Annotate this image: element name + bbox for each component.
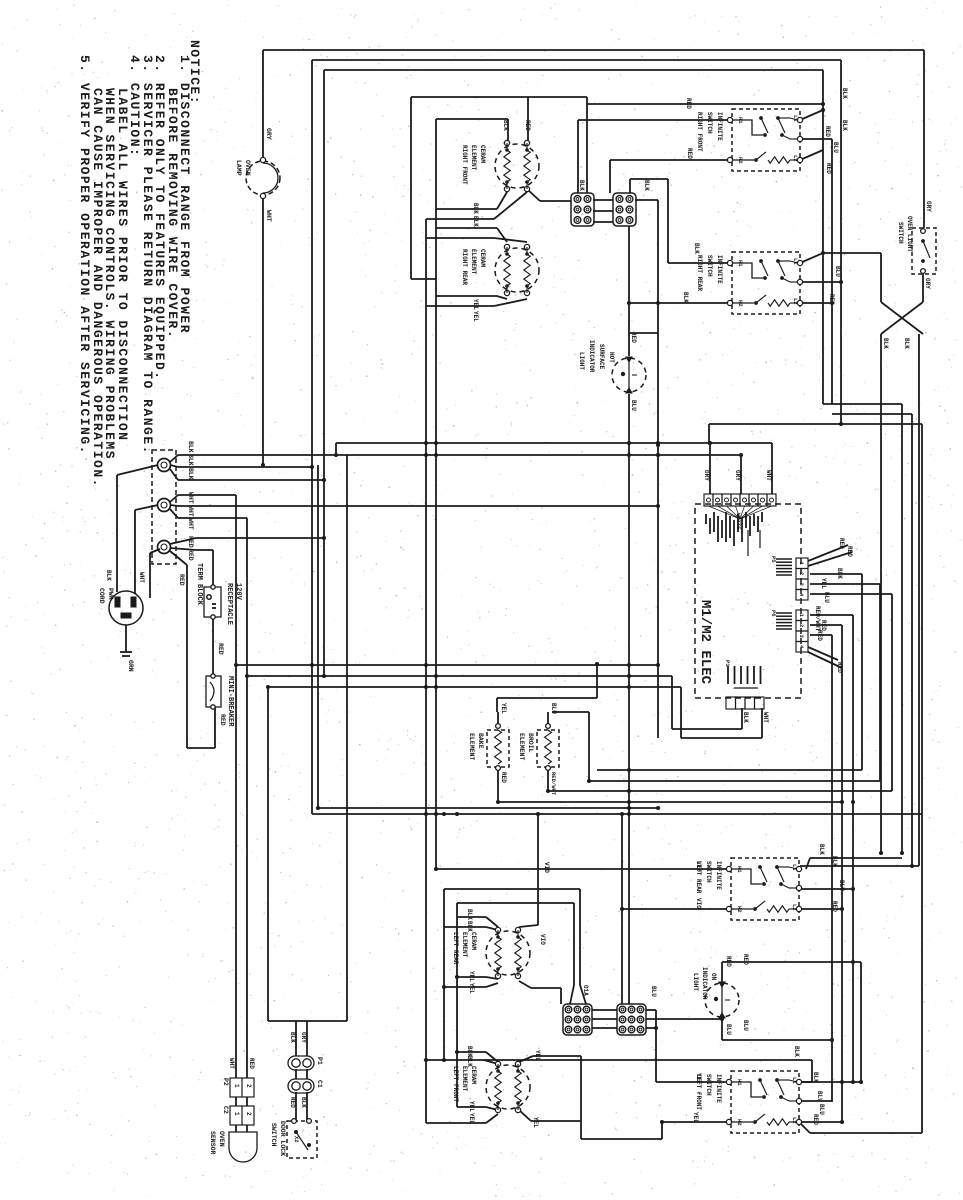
svg-text:GRN: GRN <box>127 660 134 672</box>
svg-text:YEL: YEL <box>820 578 827 589</box>
svg-text:BLU: BLU <box>838 880 845 891</box>
svg-text:OVEN: OVEN <box>244 160 251 176</box>
svg-text:BLK: BLK <box>903 338 910 349</box>
svg-text:HOT: HOT <box>608 352 615 363</box>
svg-text:H1: H1 <box>737 260 744 267</box>
svg-text:2: 2 <box>798 572 805 575</box>
svg-text:P1: P1 <box>724 660 731 667</box>
svg-text:L1: L1 <box>792 115 799 122</box>
svg-text:RED: RED <box>838 538 845 549</box>
svg-text:RED/WHT: RED/WHT <box>550 772 557 796</box>
svg-text:YEL: YEL <box>695 1073 702 1084</box>
svg-text:BLK: BLK <box>841 88 848 99</box>
svg-text:BLK: BLK <box>187 454 194 466</box>
svg-text:LEFT FRONT: LEFT FRONT <box>452 1066 459 1102</box>
svg-text:RIGHT REAR: RIGHT REAR <box>461 249 468 285</box>
svg-text:RED: RED <box>812 1114 819 1125</box>
svg-text:RED: RED <box>824 126 831 137</box>
svg-text:GRY: GRY <box>925 201 932 212</box>
svg-text:CORD: CORD <box>98 588 105 604</box>
svg-text:2: 2 <box>798 624 805 627</box>
svg-text:BLU: BLU <box>823 592 830 603</box>
svg-text:BLK: BLK <box>105 570 112 581</box>
svg-text:L1: L1 <box>791 1077 798 1084</box>
svg-text:P2: P2 <box>222 1078 229 1086</box>
svg-text:BLK: BLK <box>502 120 509 131</box>
svg-text:BLK: BLK <box>836 568 843 579</box>
svg-text:ELEMENT: ELEMENT <box>468 733 475 760</box>
svg-text:BLU: BLU <box>834 266 841 277</box>
svg-text:VIO: VIO <box>543 862 550 873</box>
svg-text:GRY: GRY <box>265 128 272 140</box>
svg-text:RED/WHT: RED/WHT <box>814 606 821 632</box>
svg-text:WHT: WHT <box>187 492 194 504</box>
svg-text:RED: RED <box>836 662 843 673</box>
svg-text:BLK: BLK <box>841 120 848 131</box>
svg-text:SWITCH: SWITCH <box>270 1123 277 1147</box>
svg-text:CERAM: CERAM <box>479 145 486 163</box>
svg-text:BROIL: BROIL <box>527 733 534 753</box>
svg-text:INFINITE: INFINITE <box>716 112 723 141</box>
svg-text:SWITCH: SWITCH <box>706 112 713 134</box>
svg-text:BLK: BLK <box>818 844 825 855</box>
svg-text:RED: RED <box>825 163 832 174</box>
svg-text:L2: L2 <box>791 1117 798 1124</box>
svg-text:RED: RED <box>219 714 226 726</box>
svg-text:BLK: BLK <box>643 180 650 191</box>
svg-text:INDICATOR: INDICATOR <box>588 340 595 373</box>
svg-text:120V: 120V <box>234 583 242 601</box>
svg-text:VIO: VIO <box>695 898 702 909</box>
svg-text:BLK: BLK <box>882 338 889 349</box>
svg-text:YEL: YEL <box>534 1050 541 1061</box>
svg-text:BLK: BLK <box>578 180 585 191</box>
svg-text:SENSOR: SENSOR <box>209 1131 216 1155</box>
svg-text:RED: RED <box>725 956 732 967</box>
svg-text:RED: RED <box>248 1058 255 1069</box>
svg-text:H1: H1 <box>737 117 744 124</box>
svg-text:WHT: WHT <box>228 1058 235 1069</box>
svg-text:INDICATOR: INDICATOR <box>701 967 708 1000</box>
svg-text:BLU: BLU <box>742 1020 749 1031</box>
svg-text:RED: RED <box>686 148 693 159</box>
svg-text:SWITCH: SWITCH <box>897 222 904 244</box>
svg-text:M1/M2 ELEC: M1/M2 ELEC <box>697 600 713 685</box>
svg-text:1: 1 <box>233 1084 240 1088</box>
svg-text:X2: X2 <box>293 1136 300 1143</box>
svg-text:BLK: BLK <box>466 1056 473 1067</box>
svg-text:3: 3 <box>798 583 805 587</box>
svg-text:RED: RED <box>217 643 224 655</box>
svg-text:RED: RED <box>816 630 823 641</box>
svg-text:ELEMENT: ELEMENT <box>470 145 477 171</box>
svg-text:BLU: BLU <box>650 986 657 997</box>
svg-text:RED: RED <box>742 954 749 965</box>
svg-text:BLK: BLK <box>472 216 479 227</box>
svg-text:GRY: GRY <box>924 278 931 289</box>
svg-text:RIGHT FRONT: RIGHT FRONT <box>461 145 468 185</box>
svg-text:P1: P1 <box>316 1057 323 1065</box>
svg-text:L1: L1 <box>791 864 798 871</box>
svg-text:BLU: BLU <box>630 400 637 411</box>
svg-text:L2: L2 <box>792 155 799 162</box>
svg-text:H2: H2 <box>736 906 743 913</box>
svg-text:BLK: BLK <box>187 468 194 480</box>
svg-text:4: 4 <box>798 593 805 597</box>
svg-text:RED: RED <box>524 120 531 131</box>
svg-text:RED: RED <box>831 901 838 912</box>
svg-text:DOOR LOCK: DOOR LOCK <box>279 1121 286 1156</box>
svg-text:YEL: YEL <box>472 311 479 322</box>
svg-text:BLK: BLK <box>300 1097 307 1108</box>
svg-text:VIO: VIO <box>695 861 702 872</box>
svg-text:RED: RED <box>187 549 194 561</box>
svg-text:BLK: BLK <box>693 243 700 254</box>
svg-text:LIGHT: LIGHT <box>692 973 699 991</box>
svg-text:RED: RED <box>846 546 853 557</box>
svg-text:WHT: WHT <box>762 712 769 723</box>
svg-text:GRY: GRY <box>300 1032 307 1043</box>
svg-text:GRY: GRY <box>734 470 741 481</box>
svg-text:SURFACE: SURFACE <box>598 344 605 370</box>
svg-text:BLK: BLK <box>466 909 473 920</box>
svg-text:C2: C2 <box>222 1106 229 1114</box>
svg-text:L2: L2 <box>792 298 799 305</box>
svg-text:H1: H1 <box>736 866 743 873</box>
svg-text:C1: C1 <box>316 1080 323 1088</box>
svg-text:MINI-BREAKER: MINI-BREAKER <box>226 676 234 727</box>
svg-text:INFINITE: INFINITE <box>716 255 723 284</box>
svg-text:ELEMENT: ELEMENT <box>470 249 477 275</box>
svg-text:ELEMENT: ELEMENT <box>518 733 525 760</box>
svg-text:BLK: BLK <box>466 921 473 932</box>
svg-text:P5: P5 <box>770 556 777 563</box>
svg-text:YEL: YEL <box>468 983 475 994</box>
svg-text:H2: H2 <box>737 300 744 307</box>
svg-text:BLU: BLU <box>550 703 557 714</box>
svg-text:ON: ON <box>710 973 717 981</box>
svg-text:RED: RED <box>500 772 507 783</box>
svg-text:RED: RED <box>685 98 692 109</box>
svg-text:CERAM: CERAM <box>470 932 477 950</box>
svg-text:YEL: YEL <box>468 1113 475 1124</box>
svg-text:SWITCH: SWITCH <box>705 861 712 883</box>
svg-text:CERAM: CERAM <box>470 1066 477 1084</box>
svg-text:BLK: BLK <box>831 856 838 867</box>
svg-text:P6: P6 <box>770 610 777 617</box>
svg-text:PWR: PWR <box>107 588 114 600</box>
svg-text:BLK: BLK <box>682 292 689 303</box>
svg-text:BLU: BLU <box>832 142 839 153</box>
svg-text:YEL: YEL <box>468 971 475 982</box>
svg-text:WHT: WHT <box>187 505 194 517</box>
svg-text:LIGHT: LIGHT <box>578 352 585 370</box>
svg-text:H2: H2 <box>736 1119 743 1126</box>
svg-text:1: 1 <box>798 614 805 618</box>
svg-text:CERAM: CERAM <box>479 249 486 267</box>
svg-text:BLK: BLK <box>289 1032 296 1043</box>
svg-text:1: 1 <box>798 562 805 566</box>
svg-text:INFINITE: INFINITE <box>715 861 722 890</box>
svg-text:BLK: BLK <box>812 1072 819 1083</box>
svg-text:3: 3 <box>798 635 805 639</box>
svg-text:YEL: YEL <box>472 299 479 310</box>
svg-text:TERM BLOCK: TERM BLOCK <box>195 563 203 606</box>
svg-text:OVEN: OVEN <box>218 1131 225 1147</box>
svg-text:ELEMENT: ELEMENT <box>461 1066 468 1092</box>
svg-text:O1A: O1A <box>582 985 589 996</box>
svg-text:L2: L2 <box>791 904 798 911</box>
svg-text:SWITCH: SWITCH <box>706 255 713 277</box>
svg-text:H2: H2 <box>737 157 744 164</box>
svg-text:RIGHT FRONT: RIGHT FRONT <box>696 112 703 152</box>
svg-text:2: 2 <box>245 1084 252 1088</box>
svg-text:SWITCH: SWITCH <box>705 1074 712 1096</box>
svg-text:BAKE: BAKE <box>477 733 484 749</box>
svg-text:ELEMENT: ELEMENT <box>461 932 468 958</box>
svg-text:YEL: YEL <box>692 1112 699 1123</box>
svg-text:BLK: BLK <box>742 712 749 723</box>
svg-text:1: 1 <box>233 1112 240 1116</box>
svg-text:VIO: VIO <box>539 934 546 945</box>
svg-text:WHT: WHT <box>765 470 772 481</box>
svg-text:WHT: WHT <box>138 572 145 583</box>
svg-text:YEL: YEL <box>500 703 507 714</box>
svg-text:RIGHT REAR: RIGHT REAR <box>696 255 703 291</box>
svg-text:RED: RED <box>187 536 194 548</box>
svg-text:WHT: WHT <box>265 210 272 222</box>
svg-text:LAMP: LAMP <box>235 160 242 176</box>
svg-text:YEL: YEL <box>468 1101 475 1112</box>
svg-text:BLK: BLK <box>793 1046 800 1057</box>
svg-text:RECEPTACLE: RECEPTACLE <box>225 583 233 625</box>
svg-text:BLK: BLK <box>187 441 194 453</box>
svg-text:H1: H1 <box>736 1079 743 1086</box>
svg-text:RED: RED <box>289 1097 296 1108</box>
svg-text:L1: L1 <box>792 258 799 265</box>
svg-text:RED: RED <box>630 332 637 343</box>
svg-text:BLU: BLU <box>816 1091 823 1102</box>
svg-text:WHT: WHT <box>187 518 194 530</box>
svg-text:RED: RED <box>828 294 835 305</box>
svg-text:YEL: YEL <box>532 1117 539 1128</box>
svg-text:LEFT REAR: LEFT REAR <box>452 932 459 965</box>
svg-text:GRY: GRY <box>703 470 710 481</box>
svg-text:OVEN LIGHT: OVEN LIGHT <box>906 216 913 252</box>
svg-text:INFINITE: INFINITE <box>715 1074 722 1103</box>
svg-text:BLK: BLK <box>472 203 479 214</box>
svg-text:5. VERIFY PROPER OPERATION AFT: 5. VERIFY PROPER OPERATION AFTER SERVICI… <box>77 55 92 455</box>
svg-text:BLU: BLU <box>725 1024 732 1035</box>
svg-text:2: 2 <box>245 1112 252 1116</box>
svg-text:RED: RED <box>178 574 185 586</box>
